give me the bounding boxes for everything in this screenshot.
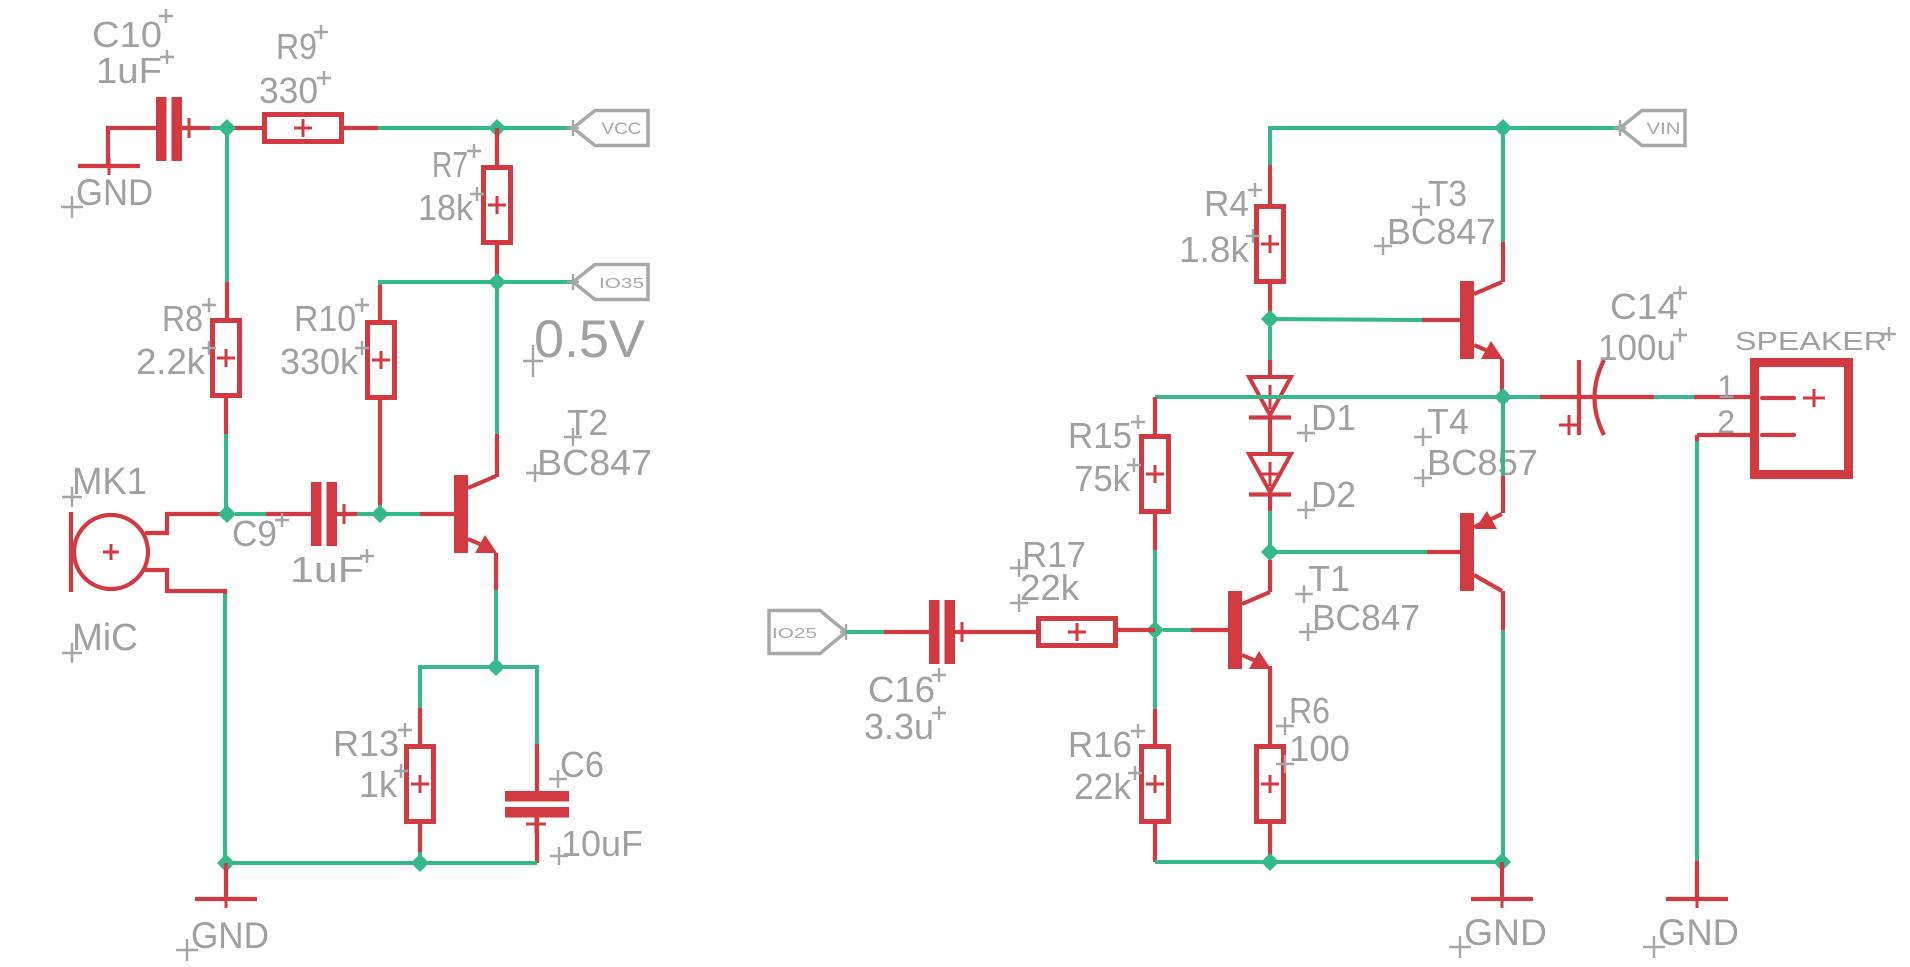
- resistor R4: [1257, 207, 1284, 282]
- svg-text:75k: 75k: [1074, 458, 1131, 499]
- wire node C to T2 base: [380, 512, 454, 516]
- connector SPEAKER: [1755, 363, 1849, 475]
- svg-text:1: 1: [1717, 369, 1735, 405]
- diode D1: [1249, 377, 1291, 418]
- junction IO35 node: [488, 273, 506, 291]
- wire GND stub bottom-left: [224, 863, 228, 899]
- label C16 value 3.3u: [864, 706, 946, 747]
- resistor R6: [1257, 747, 1284, 822]
- svg-text:GND: GND: [76, 172, 153, 213]
- wire R7 top pin: [495, 128, 499, 167]
- wire node G to T1 base: [1163, 628, 1228, 632]
- svg-text:1.8k: 1.8k: [1179, 229, 1250, 270]
- junction R13 foot: [411, 854, 429, 872]
- svg-text:1uF: 1uF: [96, 50, 162, 91]
- svg-text:R7: R7: [432, 144, 468, 185]
- label D1: [1297, 397, 1356, 442]
- wire T1 collector to node F: [1268, 560, 1272, 592]
- junction F: [1261, 543, 1279, 561]
- label C9 value 1uF: [290, 549, 374, 590]
- wire D1 cathode to D2 anode: [1268, 418, 1272, 454]
- microphone MK1: [71, 512, 148, 592]
- label R15 name: [1068, 415, 1145, 456]
- junction VCC node: [488, 119, 506, 137]
- svg-text:GND: GND: [191, 915, 269, 956]
- wire node F to T4 base: [1270, 550, 1460, 554]
- resistor R7: [484, 168, 511, 243]
- capacitor C10: [156, 97, 194, 161]
- svg-text:T4: T4: [1427, 401, 1469, 442]
- wire VCC net: [210, 126, 573, 130]
- svg-text:C10: C10: [92, 14, 162, 55]
- wire C10 right pin: [182, 126, 212, 130]
- capacitor C6: [505, 791, 569, 834]
- transistor T4: [1460, 511, 1502, 591]
- svg-text:GND: GND: [1464, 912, 1547, 953]
- svg-text:BC847: BC847: [537, 442, 652, 483]
- net flag IO25: [769, 611, 852, 654]
- svg-text:10uF: 10uF: [561, 823, 643, 864]
- wire IO25 net: [846, 630, 929, 634]
- svg-text:IO35: IO35: [599, 275, 644, 292]
- net flag VIN: [1614, 111, 1685, 146]
- svg-text:VCC: VCC: [602, 119, 642, 138]
- svg-text:100u: 100u: [1598, 327, 1676, 368]
- junction A: [218, 119, 236, 137]
- resistor R8: [213, 321, 240, 396]
- label T1: [1295, 558, 1350, 603]
- svg-text:1k: 1k: [359, 764, 398, 805]
- svg-text:D2: D2: [1311, 474, 1356, 515]
- wire T1 emitter to R6: [1268, 666, 1272, 746]
- label C14 value 100u: [1598, 327, 1687, 368]
- wire R17 right pin to node G: [1116, 628, 1156, 632]
- transistor T2: [454, 475, 497, 553]
- wire R9 right pin: [342, 126, 379, 130]
- svg-text:R9: R9: [276, 26, 317, 67]
- svg-text:R16: R16: [1068, 724, 1132, 765]
- wire node D to C6: [496, 667, 537, 793]
- wire D2 cathode to node F: [1268, 495, 1272, 552]
- svg-text:1uF: 1uF: [290, 549, 364, 590]
- pin number 2: [1717, 404, 1735, 440]
- label C10 value 1uF: [96, 50, 174, 91]
- junction OUT: [1494, 388, 1512, 406]
- transistor T1: [1228, 591, 1271, 669]
- capacitor C9: [311, 482, 349, 546]
- wire T2 collector pin: [495, 434, 499, 477]
- svg-text:BC857: BC857: [1427, 442, 1538, 483]
- label R9 value 330: [259, 70, 331, 111]
- svg-text:330: 330: [259, 70, 318, 111]
- label T3: [1412, 173, 1467, 216]
- label R13 value: [359, 764, 408, 805]
- wire node D to R13: [420, 667, 496, 746]
- junction GND-L: [217, 854, 235, 872]
- svg-text:BC847: BC847: [1387, 211, 1496, 252]
- svg-text:R15: R15: [1068, 415, 1132, 456]
- resistor R16: [1142, 747, 1169, 822]
- label R10 name: [294, 298, 369, 339]
- label MK1: [62, 461, 147, 507]
- wire VIN net: [1270, 128, 1620, 165]
- wire T3 collector: [1501, 128, 1505, 282]
- svg-text:MK1: MK1: [72, 461, 147, 503]
- wire R4 top pin: [1268, 165, 1272, 206]
- svg-text:R6: R6: [1289, 690, 1330, 731]
- wire speaker pin 2 to GND: [1697, 435, 1750, 899]
- wire R16 bottom pin: [1153, 823, 1157, 862]
- label R4 name: [1204, 183, 1262, 224]
- label C14: [1610, 286, 1687, 327]
- capacitor C16: [929, 600, 967, 664]
- ground symbol: [1666, 891, 1728, 908]
- svg-text:T1: T1: [1308, 558, 1350, 599]
- svg-text:0.5V: 0.5V: [534, 310, 646, 369]
- wire R15 top pin: [1153, 397, 1157, 436]
- net flag IO35: [567, 265, 648, 300]
- svg-text:330k: 330k: [280, 341, 359, 382]
- resistor R17: [1039, 619, 1116, 646]
- svg-text:R13: R13: [333, 723, 399, 764]
- wire C14 to speaker pin 1: [1654, 395, 1750, 399]
- resistor R10: [368, 323, 395, 398]
- wire node A to R8: [225, 134, 229, 284]
- label C6: [549, 744, 604, 788]
- wire R10 top pin: [378, 285, 382, 322]
- wire GND stub bottom-right: [1500, 862, 1504, 899]
- label C16: [868, 668, 946, 710]
- svg-text:SPEAKER: SPEAKER: [1735, 326, 1887, 356]
- svg-text:18k: 18k: [418, 187, 474, 228]
- pin number 1: [1717, 369, 1735, 405]
- wire C10 left lead to GND: [108, 128, 156, 164]
- wire T2 emitter to node D: [494, 553, 498, 667]
- label 0.5V: [523, 310, 646, 377]
- label R4 value: [1179, 229, 1260, 270]
- wire C9 right pin to node C: [337, 512, 380, 516]
- label R15 value: [1074, 458, 1141, 499]
- wire C6 bottom pin: [535, 816, 539, 863]
- label R9: [276, 25, 328, 67]
- label R16 value: [1074, 766, 1142, 807]
- label SPEAKER: [1735, 326, 1896, 356]
- net flag VCC: [567, 111, 648, 146]
- capacitor C14: [1559, 360, 1604, 435]
- label T4 value BC857: [1414, 442, 1538, 487]
- wire node B to C9: [235, 512, 311, 516]
- ground symbol: [78, 158, 140, 175]
- wire ground rail left: [226, 861, 537, 865]
- svg-text:R8: R8: [162, 298, 203, 339]
- label R7 name: [432, 144, 481, 185]
- svg-text:GND: GND: [1658, 912, 1739, 953]
- wire R7 bottom pin: [495, 245, 499, 282]
- junction R6 foot: [1261, 853, 1279, 871]
- ground symbol: [195, 891, 257, 908]
- svg-text:VIN: VIN: [1647, 119, 1681, 138]
- label R17: [1010, 534, 1086, 577]
- wire R8 bottom pin: [224, 398, 228, 434]
- wire R8 to mic node: [224, 434, 228, 514]
- junction G: [1146, 621, 1164, 639]
- label T3 value BC847: [1374, 211, 1496, 255]
- wire R13 bottom pin: [418, 824, 422, 863]
- label R8 value: [136, 341, 216, 382]
- svg-text:IO25: IO25: [772, 625, 817, 642]
- label C10: [92, 9, 173, 55]
- wire node E to D1: [1268, 327, 1272, 377]
- label GND: [1643, 912, 1739, 958]
- label R6 value 100: [1276, 728, 1350, 773]
- svg-text:T3: T3: [1428, 173, 1467, 214]
- junction D: [487, 658, 505, 676]
- resistor R15: [1142, 437, 1169, 512]
- wire junction A to R9: [227, 126, 264, 130]
- wire C16 to R17: [955, 630, 1039, 634]
- label R13 name: [333, 723, 412, 764]
- diode D2: [1249, 454, 1291, 495]
- wire R10 bottom pin: [378, 400, 382, 514]
- wire R15 bottom pin: [1153, 514, 1157, 630]
- label T2: [564, 402, 608, 446]
- label R7 value: [418, 187, 484, 228]
- svg-text:3.3u: 3.3u: [864, 706, 934, 747]
- junction C: [371, 505, 389, 523]
- label MiC: [62, 617, 138, 663]
- wire output node to C14: [1503, 395, 1654, 399]
- svg-text:22k: 22k: [1074, 766, 1132, 807]
- wire node E to T3 base: [1270, 319, 1460, 320]
- junction GND-R node: [1493, 853, 1511, 871]
- wire mic pin - down to ground rail: [145, 570, 225, 863]
- label T4: [1414, 401, 1469, 446]
- wire T3 emitter pin: [1500, 359, 1504, 397]
- label R6: [1276, 690, 1330, 735]
- label R10 value: [280, 341, 369, 382]
- junction VIN node: [1494, 119, 1512, 137]
- svg-text:C9: C9: [232, 513, 277, 554]
- label C6 value 10uF: [550, 823, 643, 865]
- svg-text:100: 100: [1289, 728, 1350, 769]
- wire node G to R16: [1153, 638, 1157, 746]
- label C9: [232, 513, 289, 554]
- label GND: [61, 172, 153, 218]
- wire R4 bottom pin: [1268, 284, 1272, 319]
- svg-text:R4: R4: [1204, 183, 1249, 224]
- wire output net row: [1155, 395, 1503, 399]
- label T1 value BC847: [1299, 597, 1420, 641]
- label R17 value 22k: [1010, 567, 1080, 612]
- resistor R13: [407, 747, 434, 822]
- label R8 name: [162, 298, 216, 339]
- svg-text:D1: D1: [1311, 397, 1356, 438]
- wire T4 emitter pin: [1501, 397, 1505, 513]
- svg-text:C16: C16: [868, 669, 935, 710]
- wire R6 bottom pin: [1268, 823, 1272, 862]
- svg-text:22k: 22k: [1020, 567, 1080, 608]
- label R16 name: [1068, 724, 1145, 765]
- svg-text:C14: C14: [1610, 286, 1678, 327]
- label D2: [1297, 474, 1356, 519]
- ground symbol: [1471, 891, 1533, 908]
- svg-text:R10: R10: [294, 298, 356, 339]
- wire R8 top pin: [225, 282, 229, 320]
- wire mic pin + to node B: [145, 514, 227, 533]
- label GND: [176, 915, 269, 961]
- svg-text:2.2k: 2.2k: [136, 341, 206, 382]
- wire ground rail right: [1155, 860, 1503, 864]
- resistor R9: [265, 115, 342, 142]
- label T2 value BC847: [526, 442, 652, 483]
- junction E: [1261, 310, 1279, 328]
- svg-text:BC847: BC847: [1312, 597, 1420, 638]
- wire IO35 net: [380, 282, 573, 434]
- transistor T3: [1460, 281, 1503, 359]
- wire T4 collector down: [1501, 591, 1505, 862]
- junction B: [218, 505, 236, 523]
- label GND: [1449, 912, 1547, 958]
